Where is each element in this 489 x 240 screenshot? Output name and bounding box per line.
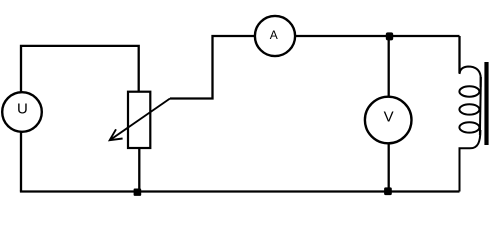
arrowhead (110, 129, 123, 140)
resistor (rheostat) R1 body (128, 92, 150, 148)
inductor L1 top hook (460, 67, 481, 88)
node: junction rheostat/bottom rail (134, 189, 142, 196)
node: junction top rail / voltmeter branch (386, 32, 393, 40)
svg-text:U: U (17, 101, 28, 118)
wire: top-right corner down to coil (458, 36, 460, 73)
wire: bottom rail (20, 190, 460, 192)
wire: U bottom to bottom rail (20, 132, 22, 192)
inductor L1 turn 2 (459, 104, 479, 114)
wire: ammeter to top-right corner (295, 35, 459, 37)
inductor L1 turn 1 (459, 86, 479, 96)
voltmeter V1 (365, 97, 412, 144)
node: junction voltmeter / bottom rail (384, 187, 392, 195)
ammeter A1 (255, 16, 295, 56)
rheostat wiper arrow shaft (110, 99, 170, 141)
inductor winding connector (480, 77, 481, 135)
inductor L1 turn 3 (459, 122, 479, 132)
voltage source U1 (2, 92, 42, 132)
wire: rheostat bottom to bottom rail (138, 148, 140, 192)
wire: junction down to voltmeter (388, 36, 390, 98)
wire: voltmeter bottom to bottom rail (388, 143, 390, 192)
svg-text:V: V (384, 108, 394, 125)
svg-text:A: A (270, 28, 278, 42)
wire: top-left loop from U top to rheostat top (21, 46, 139, 92)
inductor L1 bottom hook (460, 130, 481, 192)
iron core bar (484, 62, 488, 145)
wire: wiper to ammeter (170, 36, 255, 99)
